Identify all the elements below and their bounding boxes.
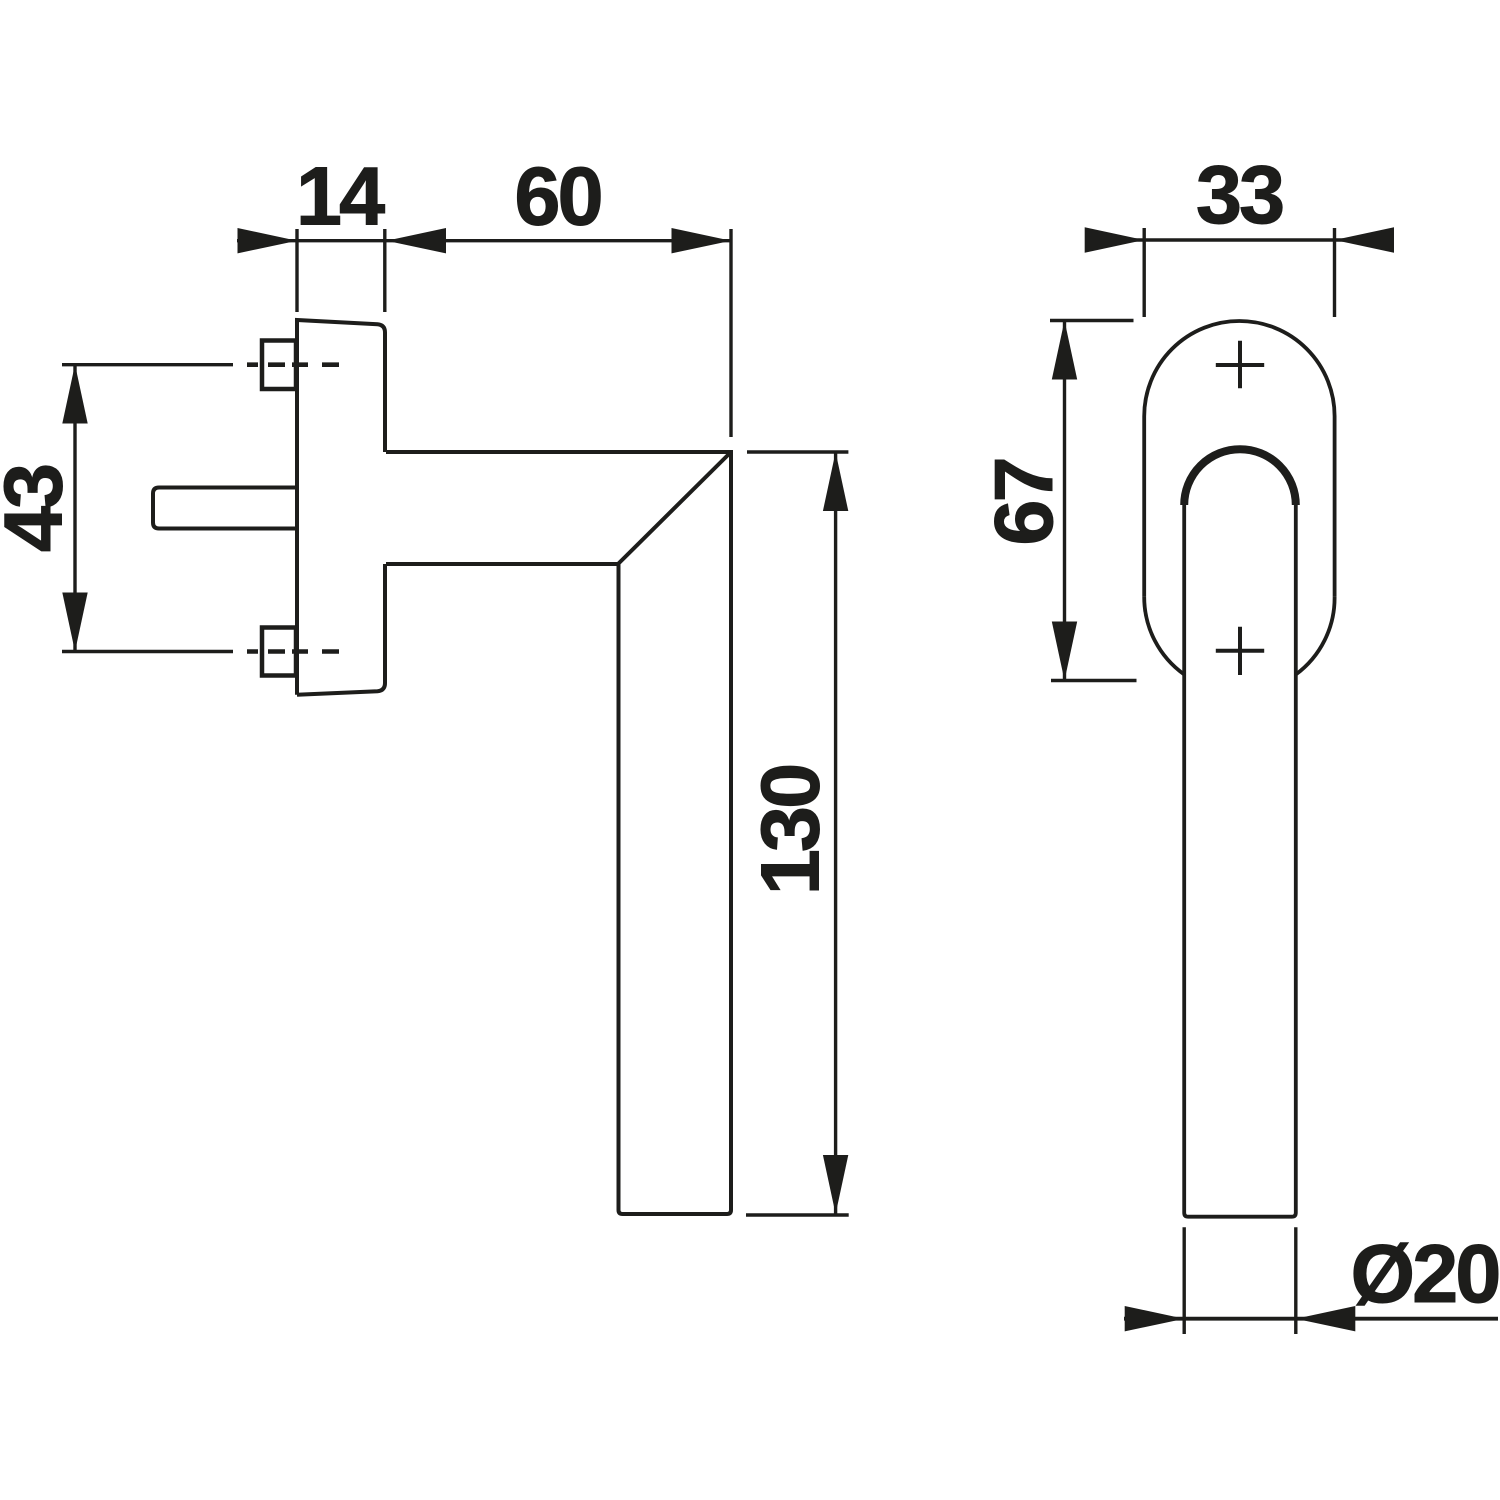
- svg-text:33: 33: [1196, 148, 1283, 241]
- svg-text:130: 130: [744, 766, 837, 895]
- svg-text:Ø20: Ø20: [1351, 1227, 1499, 1320]
- svg-text:60: 60: [514, 150, 600, 243]
- svg-text:67: 67: [977, 459, 1070, 545]
- svg-text:14: 14: [296, 150, 385, 243]
- svg-text:43: 43: [0, 465, 80, 552]
